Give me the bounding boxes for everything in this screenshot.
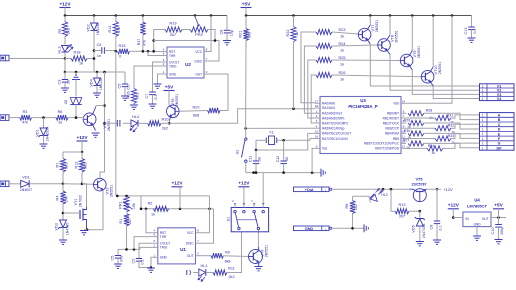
resistor R14 47k [115, 16, 117, 22]
wire U4 GND [476, 227, 478, 236]
op-amp U2 NE555 [167, 47, 204, 78]
capacitor C10 100u [498, 218, 500, 225]
svg-text:R22: R22 [286, 30, 290, 37]
resistor R18 1k [65, 58, 71, 60]
resistor R9 2k2 [64, 16, 66, 22]
transistor VT7 2N5551 [358, 28, 371, 41]
svg-text:R7: R7 [56, 163, 60, 168]
wire TRIG to R16 [134, 66, 162, 89]
wire VCC riser [201, 196, 210, 233]
LED HL2 [379, 189, 383, 193]
ground sideways [363, 224, 365, 232]
svg-text:2N5551: 2N5551 [107, 119, 111, 131]
svg-text:C5: C5 [118, 84, 122, 89]
svg-text:HL1: HL1 [201, 264, 208, 268]
svg-text:5k1: 5k1 [65, 163, 69, 169]
resistor R16 5k1 [131, 89, 136, 104]
S1 pin stubs [234, 204, 236, 208]
svg-text:100μ: 100μ [500, 227, 504, 235]
svg-text:VT1: VT1 [74, 199, 78, 206]
LED HL3 [62, 46, 69, 53]
svg-text:2k7: 2k7 [170, 33, 176, 37]
ground VT2 emitter [93, 125, 96, 130]
svg-text:6k8: 6k8 [193, 114, 199, 118]
wire U1 GND [151, 257, 153, 267]
svg-text:47k: 47k [22, 121, 28, 125]
svg-text:1k: 1k [431, 151, 435, 155]
svg-text:G: G [498, 142, 501, 146]
wire to VT2 base [68, 118, 83, 120]
wire comparator node vertical [100, 72, 105, 178]
connector +Out [294, 187, 330, 192]
wire DISC riser [201, 209, 214, 243]
capacitor C3 1n [64, 72, 66, 79]
svg-text:2D: 2D [64, 99, 68, 104]
svg-text:1N4733A: 1N4733A [46, 126, 50, 141]
resistor R3 47k [20, 115, 32, 120]
svg-text:1k: 1k [151, 213, 155, 217]
svg-text:2N5551: 2N5551 [375, 20, 379, 32]
svg-text:B: B [498, 118, 501, 122]
svg-text:2k7: 2k7 [399, 215, 405, 219]
ground (inverted, clamp) [75, 72, 77, 75]
svg-text:R14: R14 [108, 26, 112, 33]
svg-text:R15: R15 [119, 44, 126, 48]
svg-text:GND: GND [474, 222, 482, 226]
svg-text:2k2: 2k2 [67, 28, 71, 34]
resistor R22 1k [293, 16, 295, 27]
svg-text:2k2: 2k2 [354, 204, 358, 210]
svg-text:R13: R13 [399, 203, 406, 207]
svg-text:PR1: PR1 [119, 201, 123, 208]
svg-text:RA0/AN0: RA0/AN0 [322, 102, 335, 106]
svg-text:DP: DP [497, 146, 503, 150]
svg-text:R23: R23 [339, 28, 346, 32]
LED HL1 [199, 269, 206, 276]
svg-text:V4: V4 [497, 97, 501, 101]
svg-text:R16: R16 [127, 92, 131, 99]
capacitor C5 3n3 [117, 249, 119, 255]
svg-text:2N5551: 2N5551 [438, 62, 442, 74]
connector X2 input [0, 115, 9, 121]
ground [61, 87, 69, 89]
svg-text:1k: 1k [58, 121, 62, 125]
capacitor C5 0.1 [124, 72, 126, 84]
wire input 2 [9, 117, 20, 119]
svg-text:C4: C4 [97, 43, 102, 47]
svg-text:+12V: +12V [443, 187, 453, 192]
svg-text:VT5: VT5 [416, 178, 423, 182]
svg-text:R20: R20 [193, 106, 200, 110]
svg-text:2k7: 2k7 [128, 218, 132, 224]
svg-text:Vdd: Vdd [393, 102, 399, 106]
svg-text:PR2: PR2 [195, 33, 202, 37]
node R4 [62, 183, 65, 186]
svg-text:6k8: 6k8 [248, 32, 252, 38]
ground [130, 104, 138, 106]
svg-text:HL4: HL4 [132, 115, 139, 119]
wire input 3 [9, 183, 21, 185]
resistor R13 2k7 [391, 189, 395, 211]
svg-text:2k2: 2k2 [228, 275, 234, 279]
svg-text:R33: R33 [448, 134, 455, 138]
svg-text:1: 1 [482, 142, 484, 146]
svg-text:R8: R8 [345, 204, 349, 209]
svg-text:OUT: OUT [195, 72, 202, 76]
svg-text:R1: R1 [119, 219, 123, 224]
resistor R25 1k [308, 60, 316, 118]
svg-text:47k: 47k [117, 27, 121, 33]
wire U2 GND to ground [158, 74, 163, 84]
svg-text:RB2/TX/CK: RB2/TX/CK [383, 121, 400, 125]
zener VD5 1N4743A [419, 211, 421, 217]
switch S2 [245, 128, 247, 138]
mosfet VT1 2N7002 [82, 184, 87, 207]
svg-text:U1: U1 [180, 247, 186, 252]
ground [433, 239, 441, 241]
resistor R4 24k [62, 184, 64, 191]
svg-text:VCC: VCC [187, 231, 194, 235]
resistor R26 1k [311, 75, 316, 123]
resistor R28 1k [408, 111, 424, 116]
resistor R21 6k8 MCLR pullup [245, 16, 247, 29]
transistor VT9 2N5551 [400, 54, 413, 67]
svg-text:U2: U2 [185, 62, 191, 67]
svg-text:R28: R28 [426, 109, 433, 113]
svg-text:R9: R9 [58, 29, 62, 34]
svg-text:1: 1 [482, 113, 484, 117]
wire R7/R12 feed [63, 151, 82, 153]
svg-text:10k: 10k [132, 203, 136, 209]
wire to VT3 base [63, 183, 94, 186]
resistor R30 1k [408, 131, 424, 136]
LED HL4 [123, 122, 131, 124]
resistor R15 1k [118, 49, 130, 54]
svg-text:RB6/T1OSO/T1CKI/PGC: RB6/T1OSO/T1CKI/PGC [364, 142, 400, 146]
svg-text:R29: R29 [404, 118, 411, 122]
svg-text:LM7805CT: LM7805CT [467, 203, 488, 208]
wire Vss to ground rail [312, 148, 315, 172]
svg-text:R17: R17 [137, 39, 141, 46]
svg-text:1N4743A: 1N4743A [422, 223, 426, 238]
svg-text:S1: S1 [227, 217, 231, 222]
potentiometer PR2 [182, 29, 190, 31]
diode VD4 1N4148 [96, 72, 98, 78]
capacitor C13 0.1 [471, 16, 473, 27]
svg-text:+12V: +12V [171, 181, 183, 186]
svg-text:VD2: VD2 [87, 24, 91, 31]
wire THR riser [148, 51, 162, 55]
ground VT4 [258, 263, 260, 267]
junction dots on +12V bus [64, 14, 67, 17]
connector segments A-G DP [480, 113, 515, 151]
svg-text:R32: R32 [448, 124, 455, 128]
resistor R24 1k [304, 46, 316, 113]
svg-text:GND: GND [305, 227, 314, 231]
svg-text:2N5551: 2N5551 [110, 185, 114, 197]
ground [59, 239, 67, 241]
wire input filter bus [65, 71, 125, 73]
transistor VT3 2N5551 [94, 178, 107, 191]
ground [121, 95, 129, 97]
wire MCLR node [246, 127, 315, 129]
transistor VT8 2N5551 [378, 39, 391, 52]
resistor R10 2k2 [148, 121, 161, 126]
svg-text:5k1: 5k1 [136, 93, 140, 99]
svg-text:C10: C10 [491, 228, 495, 235]
svg-text:DISC: DISC [194, 59, 202, 63]
svg-text:DISC: DISC [186, 242, 194, 246]
ground [495, 239, 503, 241]
svg-text:Vss: Vss [322, 147, 328, 151]
wire DISC row [154, 41, 219, 62]
wire THR/TRIG node [118, 248, 140, 250]
svg-text:0.1: 0.1 [154, 94, 158, 99]
svg-text:1N4148: 1N4148 [96, 23, 100, 35]
diode VD2 1N4148 [93, 16, 95, 24]
svg-text:OUT: OUT [482, 217, 489, 221]
wire VT6 emitter node [169, 117, 170, 121]
ground rail under VT1/VT3 [86, 228, 89, 231]
potentiometer PR1 10k [124, 196, 129, 212]
wire bus end to C6 decoupling [226, 16, 228, 30]
resistor R33 1k [406, 138, 435, 140]
wire Vdd to +5V bus [406, 16, 452, 104]
svg-text:U4: U4 [474, 197, 480, 202]
resistor R11 2k2 [206, 272, 213, 274]
svg-text:HL3: HL3 [58, 47, 62, 54]
resistor R12 5k1 [81, 152, 83, 159]
svg-text:RA7/OSC1/CLKIN: RA7/OSC1/CLKIN [322, 137, 348, 141]
connector X3 input [0, 181, 9, 187]
wire +5V bus [246, 15, 472, 17]
svg-text:VCC: VCC [195, 50, 202, 54]
wire to VD zener [32, 117, 57, 119]
wire VT4 collector to S1 [257, 247, 260, 250]
svg-text:RA3/AN3/CMP1: RA3/AN3/CMP1 [322, 116, 345, 120]
resistor R32 1k [406, 127, 435, 129]
svg-text:1n: 1n [97, 54, 101, 58]
wire RST riser [146, 209, 153, 233]
svg-text:1: 1 [482, 146, 484, 150]
dual diode 2D522 clamp [75, 80, 77, 97]
switch S1 block [231, 208, 268, 232]
svg-text:RB4/PGM: RB4/PGM [385, 132, 400, 136]
capacitor C7 0.1 [149, 91, 156, 93]
svg-text:R4: R4 [56, 196, 60, 201]
wire OUT to R9 [201, 255, 212, 257]
wire VCC to bus [209, 16, 211, 52]
capacitor C4 1n [94, 50, 101, 52]
svg-text:1N4735: 1N4735 [66, 223, 70, 235]
IC U1 NE555 [158, 228, 196, 264]
svg-text:R30: R30 [404, 129, 411, 133]
svg-text:+5V: +5V [494, 203, 503, 208]
svg-text:13: 13 [402, 145, 406, 149]
wire R11 to S1 [227, 232, 242, 273]
capacitor C8 filter [436, 189, 438, 220]
svg-text:RB0/INT: RB0/INT [387, 112, 399, 116]
resistor R1 2k7 [124, 214, 129, 227]
wire THR riser [134, 237, 153, 250]
svg-text:THR: THR [160, 235, 167, 239]
svg-text:S2: S2 [236, 150, 240, 155]
svg-text:1: 1 [482, 137, 484, 141]
svg-text:VD5: VD5 [412, 225, 416, 232]
svg-text:Y1: Y1 [269, 131, 274, 135]
svg-text:1: 1 [482, 97, 484, 101]
wire CVOLT to C2 [139, 243, 153, 258]
svg-text:R12: R12 [75, 162, 79, 169]
svg-text:RA2/AN2/Vref: RA2/AN2/Vref [322, 112, 342, 116]
zener VD3 1N4735 [60, 220, 67, 228]
svg-text:14: 14 [402, 100, 406, 104]
svg-text:0.1: 0.1 [127, 84, 131, 89]
svg-text:10μ: 10μ [230, 30, 234, 36]
svg-text:C11: C11 [249, 156, 253, 162]
svg-text:1n: 1n [67, 80, 71, 84]
resistor R20 6k8 [208, 108, 221, 113]
wire PR1 feed [116, 195, 210, 197]
svg-text:RA6/OSC2/CLKOUT: RA6/OSC2/CLKOUT [322, 132, 351, 136]
transistor VT5 2SC5787 [413, 189, 426, 202]
svg-text:R2: R2 [148, 201, 153, 205]
svg-text:1: 1 [482, 132, 484, 136]
wire GND line [332, 227, 364, 229]
svg-text:GND: GND [169, 72, 177, 76]
svg-text:C12: C12 [276, 156, 280, 163]
svg-text:+12V: +12V [59, 1, 71, 6]
svg-text:C13: C13 [464, 28, 468, 35]
svg-text:VD3: VD3 [55, 223, 59, 230]
capacitor C6 0.1 [105, 122, 118, 124]
svg-text:VD1: VD1 [36, 129, 40, 136]
svg-text:GND: GND [160, 256, 168, 260]
svg-text:C5: C5 [111, 256, 115, 261]
svg-text:C: C [498, 123, 501, 127]
ground [147, 267, 155, 269]
wire VT6 emitter to RA1 [169, 109, 315, 124]
svg-text:OUT: OUT [187, 254, 194, 258]
svg-text:1k: 1k [340, 49, 344, 53]
svg-text:1N4007: 1N4007 [20, 188, 32, 192]
capacitor C2 0.1 [136, 258, 142, 260]
svg-text:18: 18 [315, 104, 319, 108]
svg-text:RA1/AN1: RA1/AN1 [322, 106, 335, 110]
svg-text:R21: R21 [239, 31, 243, 38]
svg-text:+12V: +12V [448, 203, 460, 208]
connector GND out [294, 226, 330, 231]
resistor R6 1k [56, 115, 68, 120]
resistor R2 1k [153, 206, 168, 211]
svg-text:16: 16 [315, 135, 319, 139]
connector X1 input [0, 55, 9, 61]
svg-text:C2: C2 [132, 259, 136, 264]
svg-text:+Out: +Out [305, 188, 314, 192]
buzzer HA1 [186, 270, 188, 275]
node R15/R14 junction [115, 50, 118, 53]
svg-text:VD1: VD1 [22, 175, 29, 179]
zener VD 1N4733A [43, 118, 45, 128]
svg-text:0: 0 [119, 55, 121, 59]
svg-text:R26: R26 [339, 71, 346, 75]
svg-text:2N5551: 2N5551 [265, 245, 269, 257]
svg-text:RB1/RX/DT: RB1/RX/DT [383, 116, 399, 120]
ground [416, 241, 424, 243]
transistor VT4 2N5551 [249, 250, 263, 264]
svg-text:0.1: 0.1 [473, 28, 477, 33]
svg-text:3n3: 3n3 [120, 256, 124, 262]
svg-text:C7: C7 [145, 94, 149, 99]
svg-text:A: A [498, 114, 501, 118]
ground rail crystal [246, 172, 321, 174]
svg-text:C8: C8 [220, 30, 224, 35]
svg-text:R31: R31 [447, 113, 454, 117]
resistor R17 47k [142, 16, 144, 23]
wire U2 OUT to R20 [209, 74, 228, 111]
svg-text:R6: R6 [58, 110, 63, 114]
svg-text:R9: R9 [225, 251, 230, 255]
node input filter junction [64, 59, 66, 73]
svg-text:R19: R19 [170, 22, 177, 26]
svg-text:R27: R27 [403, 138, 410, 142]
IC U3 PIC16F628A [320, 97, 401, 154]
svg-text:1: 1 [482, 128, 484, 132]
svg-text:1k: 1k [79, 62, 83, 66]
svg-text:R18: R18 [74, 51, 81, 55]
resistor R27 1k [408, 141, 424, 146]
capacitor C8 10u [224, 29, 230, 31]
capacitor C12 load [283, 140, 285, 160]
svg-text:R11: R11 [228, 267, 235, 271]
ground [114, 263, 122, 265]
svg-text:THR: THR [169, 54, 176, 58]
svg-text:R3: R3 [23, 110, 28, 114]
wire +12V bus [65, 15, 227, 17]
svg-text:2N5551: 2N5551 [175, 94, 179, 106]
svg-text:1N4148: 1N4148 [99, 78, 103, 90]
transistor VT6 2N5551 [167, 105, 180, 118]
svg-text:30: 30 [258, 157, 262, 161]
wire TRIG [140, 247, 153, 249]
wire RA6 to crystal [256, 133, 315, 150]
svg-text:R25: R25 [339, 56, 346, 60]
svg-text:1k: 1k [340, 35, 344, 39]
svg-text:RA5/MCLR/Vpp: RA5/MCLR/Vpp [322, 127, 345, 131]
svg-text:RB7/T1OSI/PGD: RB7/T1OSI/PGD [375, 147, 399, 151]
svg-text:6k8: 6k8 [225, 260, 231, 264]
svg-text:17: 17 [315, 100, 319, 104]
svg-text:TRIG: TRIG [160, 246, 168, 250]
svg-text:PIC16F628A_P: PIC16F628A_P [348, 104, 378, 109]
svg-text:2SC5787: 2SC5787 [412, 183, 427, 187]
svg-text:0.1: 0.1 [439, 225, 443, 230]
wire CVOLT to C7 [153, 62, 163, 92]
svg-text:24k: 24k [65, 196, 69, 202]
svg-text:5k1: 5k1 [84, 163, 88, 169]
resistor R34 1k [406, 147, 427, 149]
wire PR2 wiper to bus [194, 16, 196, 18]
resistor R7 5k1 [62, 152, 64, 159]
resistor R8 2k2 LED [352, 196, 354, 200]
ground [93, 92, 101, 94]
svg-text:D: D [498, 128, 501, 132]
svg-text:2N5551: 2N5551 [417, 46, 421, 58]
wire input to HL3 node [9, 58, 65, 60]
svg-text:30: 30 [285, 157, 289, 161]
svg-text:15: 15 [315, 130, 319, 134]
svg-text:R34: R34 [428, 144, 435, 148]
